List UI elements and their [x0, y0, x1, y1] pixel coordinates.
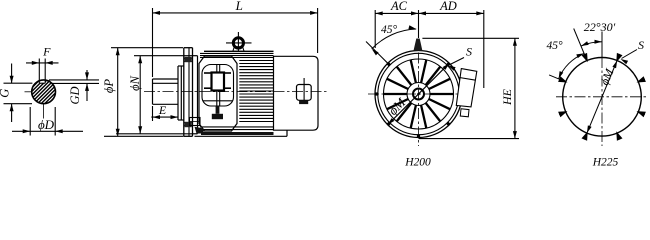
45 degree angular dimension — [366, 42, 388, 64]
svg-text:S: S — [638, 38, 644, 52]
keyway flat line extension left — [4, 82, 33, 84]
H200 top boss — [414, 39, 423, 51]
H225 bolt hole arrows — [637, 76, 646, 82]
H200 phi M diagonal dimension — [388, 63, 450, 125]
flange bottom bolt boss — [190, 118, 201, 126]
shaft shoulder collar — [177, 66, 179, 120]
centerline of motor axis — [144, 91, 327, 93]
svg-text:22°30′: 22°30′ — [584, 20, 616, 34]
shaft top tangent extension right — [49, 79, 99, 81]
svg-text:ϕD: ϕD — [38, 117, 55, 132]
motor frame bottom fin lines — [200, 126, 274, 128]
dimension HE — [422, 37, 519, 39]
bottom bolt under housing — [216, 106, 220, 114]
keyway flat line extension right — [52, 82, 99, 84]
dimension E (shaft extension) — [152, 106, 154, 121]
vertical centerline below circle — [43, 105, 45, 119]
svg-text:ϕP: ϕP — [102, 79, 116, 93]
cooling fins — [239, 60, 273, 62]
45 degree angular dimension (H225) — [549, 75, 566, 82]
flange plate — [183, 48, 185, 137]
svg-text:GD: GD — [68, 86, 82, 104]
flange bottom corner wedge — [195, 127, 204, 134]
svg-text:E: E — [158, 103, 167, 117]
body bottom skirt — [195, 135, 288, 137]
svg-text:L: L — [235, 0, 243, 13]
H225 phi M diagonal dimension — [587, 61, 617, 134]
dimension AC and AD — [374, 10, 376, 48]
H225 centerlines — [556, 96, 648, 98]
22deg30min angular dimension — [601, 32, 603, 58]
dimension phi N (spigot) — [134, 55, 192, 57]
H200 inner rim circle — [378, 53, 459, 134]
svg-text:45°: 45° — [381, 24, 398, 36]
flange spigot — [197, 56, 199, 134]
keyway slot — [38, 59, 40, 84]
front end housing octagon — [199, 56, 237, 131]
center tick left — [25, 91, 33, 93]
dimension F (keyway width) — [26, 62, 59, 64]
bottom tangent extension left — [4, 103, 33, 105]
svg-text:AC: AC — [390, 0, 408, 13]
shaft side view — [153, 78, 179, 80]
dimension phi P (flange od) — [111, 47, 183, 49]
dimension GD (keyway depth) — [86, 70, 88, 80]
terminal box on H200 — [456, 69, 477, 107]
rear housing — [274, 56, 319, 130]
inner housing contour — [202, 65, 234, 107]
dimension L (overall length) — [152, 8, 154, 77]
flange bolt heads — [185, 57, 192, 62]
motor frame top fin lines — [204, 50, 274, 52]
H200 rib ring outer circle — [384, 59, 454, 129]
svg-text:45°: 45° — [546, 40, 563, 52]
housing interior grid lines — [204, 72, 212, 74]
svg-text:HE: HE — [500, 88, 514, 106]
H200 centerlines — [418, 53, 420, 147]
svg-text:H225: H225 — [592, 156, 619, 168]
svg-text:ϕN: ϕN — [128, 75, 142, 90]
H200 radial ribs — [411, 60, 416, 83]
svg-text:F: F — [42, 45, 51, 59]
eyebolt on top — [233, 38, 243, 48]
dimension G — [11, 64, 13, 84]
flange bolt hole lines — [184, 58, 193, 60]
H225 circle — [563, 58, 642, 137]
rear small box (grease fitting) — [297, 85, 312, 101]
svg-text:H200: H200 — [404, 157, 431, 169]
svg-text:G: G — [0, 89, 12, 98]
svg-text:S: S — [466, 45, 472, 59]
H200 bolt hole tabs on rim — [459, 92, 463, 95]
H200 hub circles — [407, 83, 430, 106]
H200 fan cover outer circle — [375, 51, 462, 138]
svg-text:AD: AD — [439, 0, 457, 13]
dimension phi D — [29, 107, 31, 136]
